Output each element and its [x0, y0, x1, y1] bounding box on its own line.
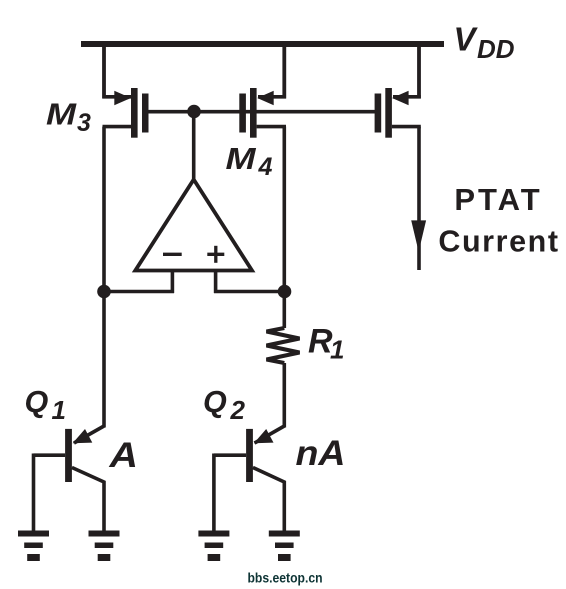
- svg-text:M: M: [226, 141, 257, 176]
- ground under Q2 base: [198, 531, 229, 562]
- label VDD: [454, 21, 515, 64]
- wire: M3 drain down the left column to Q1 emitter: [102, 127, 106, 428]
- PMOS M4: [239, 88, 286, 138]
- label PTAT Current: [438, 182, 559, 259]
- svg-text:V: V: [454, 21, 479, 58]
- label R1: [308, 323, 344, 365]
- wire: R1 bottom to Q2 emitter: [282, 363, 286, 428]
- svg-text:3: 3: [77, 109, 91, 137]
- label Q2: [203, 385, 246, 425]
- wire: VDD rail to M3 source: [102, 45, 106, 99]
- transistor Q1 (PNP, area A): [34, 426, 105, 532]
- wire: VDD rail to output PMOS source: [417, 45, 421, 99]
- svg-text:nA: nA: [296, 434, 346, 473]
- svg-text:bbs.eetop.cn: bbs.eetop.cn: [248, 569, 323, 585]
- label M4: [226, 141, 273, 181]
- output PMOS (PTAT mirror): [375, 88, 421, 138]
- svg-text:PTAT: PTAT: [454, 182, 542, 217]
- svg-text:A: A: [108, 435, 138, 475]
- label M3: [46, 97, 91, 137]
- PTAT current arrow: [411, 220, 426, 251]
- ground under Q1 base: [18, 531, 49, 562]
- wire: op-amp output to gate node: [192, 112, 196, 181]
- resistor R1: [267, 328, 300, 363]
- wire: inverting input to left node: [103, 290, 175, 294]
- wire: output PMOS drain down (PTAT output): [417, 127, 421, 270]
- wire: VDD rail to M4 source: [282, 45, 286, 99]
- svg-text:Q: Q: [25, 385, 49, 419]
- svg-text:1: 1: [330, 334, 344, 364]
- wire: M4 drain down to R1 top: [282, 127, 286, 328]
- transistor Q2 (PNP, area nA): [214, 426, 284, 532]
- ground under Q2 collector: [269, 531, 300, 562]
- VDD power rail: [81, 41, 444, 47]
- junction dot gate node: [187, 105, 201, 119]
- junction dot right node: [278, 285, 292, 299]
- junction dot left node: [97, 285, 111, 299]
- PMOS M3: [103, 88, 149, 138]
- svg-text:2: 2: [230, 395, 246, 425]
- svg-text:DD: DD: [477, 34, 515, 64]
- svg-text:M: M: [46, 97, 77, 132]
- svg-text:4: 4: [258, 153, 273, 181]
- gate net wire (gates of M3, M4, output PMOS): [148, 110, 375, 114]
- ground under Q1 collector: [89, 531, 120, 562]
- op-amp U1: [135, 180, 252, 294]
- label Q1: [25, 385, 66, 425]
- wire: non-inverting input to right node: [214, 290, 286, 294]
- svg-text:Current: Current: [438, 225, 559, 259]
- svg-text:Q: Q: [203, 385, 227, 419]
- svg-text:1: 1: [52, 395, 66, 425]
